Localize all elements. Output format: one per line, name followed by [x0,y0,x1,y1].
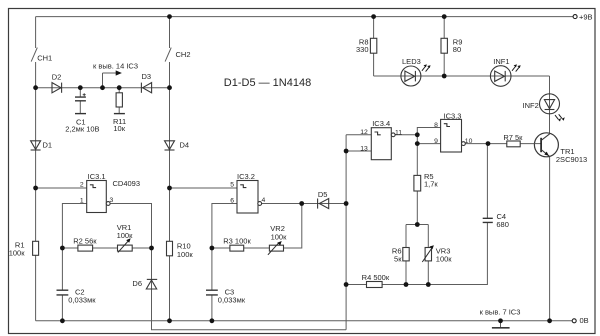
svg-text:330: 330 [356,45,369,54]
svg-text:100к: 100к [9,248,26,257]
svg-text:12: 12 [360,129,368,136]
svg-text:100к: 100к [436,254,453,263]
svg-text:D1: D1 [43,140,53,149]
svg-text:R2 56к: R2 56к [73,237,97,246]
svg-text:680: 680 [496,220,509,229]
svg-text:CH2: CH2 [176,50,191,59]
svg-text:13: 13 [360,145,368,152]
svg-text:5к: 5к [394,254,402,263]
svg-text:2,2мк 10В: 2,2мк 10В [65,124,99,133]
svg-text:80: 80 [453,45,461,54]
svg-text:0,033мк: 0,033мк [218,295,246,304]
svg-text:1: 1 [80,197,84,204]
svg-text:INF1: INF1 [493,57,509,66]
svg-text:к выв. 14 IC3: к выв. 14 IC3 [93,61,138,70]
svg-text:4: 4 [262,197,266,204]
svg-text:IC3.4: IC3.4 [372,119,390,128]
svg-text:10: 10 [465,138,473,145]
svg-text:5: 5 [230,181,234,188]
svg-text:LED3: LED3 [402,57,421,66]
svg-text:8: 8 [434,122,438,129]
svg-text:к выв. 7 IC3: к выв. 7 IC3 [480,307,521,316]
svg-text:3: 3 [110,197,114,204]
svg-text:R4 500к: R4 500к [362,273,390,282]
svg-text:2SC9013: 2SC9013 [556,155,587,164]
svg-text:D4: D4 [180,141,190,150]
svg-text:D6: D6 [132,279,142,288]
svg-text:0В: 0В [580,316,589,325]
svg-text:D5: D5 [318,190,328,199]
svg-text:CD4093: CD4093 [113,179,141,188]
svg-text:100к: 100к [117,231,134,240]
svg-text:6: 6 [230,197,234,204]
svg-text:100к: 100к [271,232,288,241]
svg-text:2: 2 [80,181,84,188]
svg-text:0,033мк: 0,033мк [68,295,96,304]
svg-text:INF2: INF2 [523,101,539,110]
svg-text:100к: 100к [177,250,194,259]
svg-text:D3: D3 [142,72,152,81]
svg-text:R3 100к: R3 100к [223,236,251,245]
svg-text:10к: 10к [113,124,125,133]
svg-text:IC3.3: IC3.3 [444,111,462,120]
svg-text:D1-D5 — 1N4148: D1-D5 — 1N4148 [224,77,311,89]
svg-text:+9В: +9В [579,12,593,21]
svg-text:CH1: CH1 [37,53,52,62]
svg-text:R7 5к: R7 5к [503,133,523,142]
svg-text:IC3.1: IC3.1 [88,172,106,181]
svg-text:9: 9 [434,138,438,145]
svg-text:11: 11 [395,129,402,136]
svg-text:D2: D2 [52,73,62,82]
svg-text:IC3.2: IC3.2 [237,172,255,181]
svg-text:1,7к: 1,7к [424,180,438,189]
